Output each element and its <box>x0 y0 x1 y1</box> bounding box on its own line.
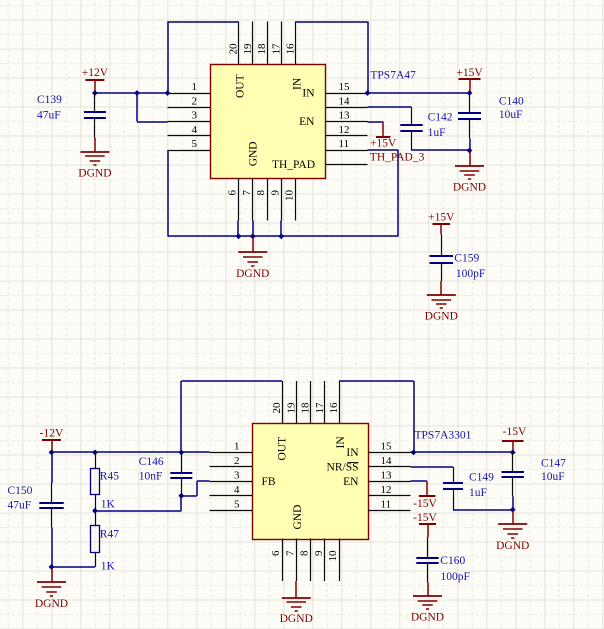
wire divider mid <box>95 496 181 511</box>
svg-text:NR/SS: NR/SS <box>327 461 359 473</box>
label 47uF C139 <box>37 110 61 122</box>
ground DGND C139 <box>78 152 111 179</box>
svg-text:2: 2 <box>192 95 198 107</box>
pin name IN (pin15) U1 <box>302 88 315 100</box>
capacitor C140 <box>458 93 481 151</box>
svg-text:+12V: +12V <box>82 67 109 79</box>
label C139 <box>37 94 62 106</box>
wire bottom DGND bus <box>168 235 399 237</box>
junction pin 9 bus <box>278 233 284 239</box>
pin name FB U2 <box>262 476 276 488</box>
svg-text:C160: C160 <box>440 555 465 567</box>
pin name EN U1 <box>299 116 315 128</box>
svg-text:1: 1 <box>234 440 240 452</box>
pin 7 U2 bottom <box>284 539 296 582</box>
wire pin15 to +15V/C140 <box>368 92 470 94</box>
wire pin 9 to bus <box>280 221 282 237</box>
capacitor C149 <box>443 467 463 510</box>
wire pin 6 to bus <box>237 221 239 237</box>
pin 14 U1 right <box>325 95 368 107</box>
junction pin1/rail <box>165 90 171 96</box>
pin 9 U2 bottom <box>313 539 325 582</box>
pin 20 U1 top <box>228 22 240 65</box>
ground DGND C160 <box>411 596 444 624</box>
wire pin 7 to bus <box>252 221 254 237</box>
label 1K R45 <box>101 499 116 511</box>
svg-text:FB: FB <box>262 476 276 488</box>
svg-text:13: 13 <box>381 469 393 481</box>
svg-text:7: 7 <box>284 550 296 556</box>
pin name EN U2 <box>343 476 359 488</box>
svg-text:11: 11 <box>339 138 350 150</box>
svg-text:7: 7 <box>241 190 253 196</box>
svg-text:+15V: +15V <box>428 212 455 224</box>
svg-text:1: 1 <box>192 81 198 93</box>
svg-text:100pF: 100pF <box>441 571 470 583</box>
pin 17 U2 top <box>314 381 326 423</box>
junction +15V C140 <box>467 90 473 96</box>
pin 10 U2 bottom <box>327 539 340 582</box>
pin name IN (pin16) U2 <box>335 436 347 449</box>
wire C149 bottom to C147 bottom <box>453 509 513 511</box>
capacitor C150 <box>39 452 63 567</box>
svg-text:6: 6 <box>270 550 282 556</box>
junction C146 top <box>178 450 184 456</box>
ground DGND C140 <box>453 151 486 194</box>
pin 16 U2 top <box>328 381 340 423</box>
designator TPS7A3301 <box>415 429 472 441</box>
svg-text:C146: C146 <box>139 456 164 468</box>
pin name TH_PAD U1 <box>272 159 315 171</box>
wire top rail right (pin16 to right rail) <box>296 21 368 23</box>
label 10nF C146 <box>139 471 163 483</box>
pin 4 U1 left <box>168 124 211 136</box>
pin 1 U2 left <box>210 440 253 452</box>
pin 13 U2 right <box>368 469 411 481</box>
svg-text:C147: C147 <box>541 458 566 470</box>
svg-text:TPS7A3301: TPS7A3301 <box>415 429 472 441</box>
svg-text:1uF: 1uF <box>469 487 487 499</box>
wire U2 top rail left <box>181 380 282 382</box>
wire U2 right rail vertical <box>413 381 415 452</box>
IC U2 TPS7A3301 body <box>253 424 369 540</box>
svg-text:11: 11 <box>381 498 392 510</box>
svg-text:OUT: OUT <box>235 74 247 98</box>
svg-text:10nF: 10nF <box>139 471 163 483</box>
svg-text:8: 8 <box>255 190 267 196</box>
label C142 <box>428 111 453 123</box>
pin 14 U2 right <box>368 455 411 467</box>
pin 12 U1 right <box>325 124 368 136</box>
svg-text:IN: IN <box>346 447 359 459</box>
pin 8 U1 bottom <box>255 178 268 221</box>
svg-text:DGND: DGND <box>236 268 269 280</box>
svg-text:14: 14 <box>339 95 351 107</box>
junction C147 bottom <box>510 507 516 513</box>
svg-text:17: 17 <box>270 43 282 55</box>
wire top rail left (pin20 to left rail) <box>168 21 239 23</box>
label C150 <box>8 485 33 497</box>
svg-text:4: 4 <box>234 484 240 496</box>
label 1uF C142 <box>428 127 446 139</box>
pin name NR/SS U2 <box>327 461 359 473</box>
svg-text:DGND: DGND <box>280 613 313 625</box>
pin 11 U2 right <box>368 498 411 510</box>
svg-text:DGND: DGND <box>425 311 458 323</box>
capacitor C159 <box>430 234 454 295</box>
ground DGND bus <box>236 236 269 280</box>
label C160 <box>440 555 465 567</box>
pin 5 U1 left <box>168 138 211 151</box>
svg-text:16: 16 <box>328 402 340 414</box>
wire R47 bottom to C150 <box>52 566 96 568</box>
IC U1 TPS7A47 body <box>211 65 326 179</box>
svg-text:-15V: -15V <box>503 426 527 438</box>
pin 13 U1 right <box>325 110 368 122</box>
capacitor C146 <box>170 452 192 495</box>
svg-text:C149: C149 <box>469 472 494 484</box>
wire pin14 to C142 <box>368 106 412 108</box>
svg-text:C142: C142 <box>428 111 453 123</box>
pin 3 U1 left <box>168 110 211 122</box>
svg-text:20: 20 <box>271 402 283 414</box>
label 100pF C159 <box>456 268 485 280</box>
svg-text:C139: C139 <box>37 94 62 106</box>
pin 2 U2 left <box>210 455 253 467</box>
svg-text:DGND: DGND <box>496 540 529 552</box>
label R47 <box>100 528 119 540</box>
pin name GND U2 <box>292 505 304 530</box>
svg-text:15: 15 <box>381 440 393 452</box>
ground DGND C150 <box>35 567 68 610</box>
svg-text:2: 2 <box>234 455 240 467</box>
power port -15V (output) <box>502 426 527 452</box>
pin 4 U2 left <box>210 484 253 496</box>
svg-text:20: 20 <box>228 43 240 55</box>
svg-text:IN: IN <box>302 88 315 100</box>
svg-text:4: 4 <box>192 124 198 136</box>
wire C142 bottom to C140 bottom <box>412 149 470 151</box>
svg-text:+15V: +15V <box>370 138 397 150</box>
label 1uF C149 <box>469 487 487 499</box>
pin 1 U1 left <box>168 81 211 94</box>
svg-text:10: 10 <box>327 550 339 562</box>
pin name IN (pin16) U1 <box>292 77 304 90</box>
svg-text:C150: C150 <box>8 485 33 497</box>
label 47uF C150 <box>8 500 32 512</box>
label C146 <box>139 456 164 468</box>
svg-text:1uF: 1uF <box>428 127 446 139</box>
pin name OUT U1 <box>235 74 247 98</box>
svg-text:3: 3 <box>192 110 198 122</box>
pin 9 U1 bottom <box>269 178 281 221</box>
svg-text:1K: 1K <box>101 560 116 572</box>
pin 8 U2 bottom <box>299 539 311 582</box>
svg-text:TH_PAD: TH_PAD <box>272 159 315 171</box>
label R45 <box>100 471 119 483</box>
resistor R45 <box>91 452 100 510</box>
svg-text:-15V: -15V <box>413 512 437 524</box>
pin 2 U1 left <box>168 95 211 107</box>
svg-text:R47: R47 <box>100 528 119 540</box>
junction pin15 rail <box>365 90 371 96</box>
net label TH_PAD_3 <box>370 152 425 164</box>
label 10uF C147 <box>541 471 565 483</box>
junction jog pin3 <box>134 90 140 96</box>
wire C146 column vertical <box>180 381 182 452</box>
pin 3 U2 left <box>210 469 253 481</box>
svg-text:47uF: 47uF <box>37 110 61 122</box>
junction pin 6 bus <box>236 233 242 239</box>
svg-text:13: 13 <box>339 110 351 122</box>
wire pin5 down <box>167 150 169 236</box>
svg-text:19: 19 <box>285 402 297 414</box>
pin 16 U1 top <box>285 22 297 65</box>
pin name IN (pin15) U2 <box>346 447 359 459</box>
svg-text:C159: C159 <box>454 253 479 265</box>
wire U2 top rail right <box>339 380 414 382</box>
power port +15V (C159) <box>428 212 455 235</box>
label C159 <box>454 253 479 265</box>
power port -15V (C160) <box>413 512 437 537</box>
power port +12V <box>82 67 109 93</box>
label C149 <box>469 472 494 484</box>
junction C146 bottom <box>178 493 184 499</box>
junction C150 bottom <box>49 564 55 570</box>
pin 17 U1 top <box>270 22 282 65</box>
pin 6 U2 bottom <box>270 539 283 582</box>
svg-text:DGND: DGND <box>411 612 444 624</box>
pin 18 U2 top <box>300 381 312 423</box>
svg-text:18: 18 <box>256 43 268 55</box>
svg-text:17: 17 <box>314 402 326 414</box>
pin 20 U2 top <box>271 381 283 423</box>
svg-text:EN: EN <box>343 476 359 488</box>
junction R45 top <box>92 450 98 456</box>
power port +15V (output) <box>456 67 483 93</box>
ground DGND U2 pin7 <box>280 581 313 625</box>
svg-text:TH_PAD_3: TH_PAD_3 <box>370 152 425 164</box>
wire jog down to pin 3 <box>137 93 168 122</box>
wire -12V to pin 1 <box>52 451 210 453</box>
wire pin14 U2 to C149 <box>411 466 454 468</box>
pin 15 U2 right <box>368 440 411 452</box>
pin 12 U2 right <box>368 484 411 496</box>
power port +15V (EN) <box>370 122 397 150</box>
svg-text:-12V: -12V <box>40 427 64 439</box>
pin 15 U1 right <box>325 81 368 94</box>
svg-text:47uF: 47uF <box>8 500 32 512</box>
svg-text:5: 5 <box>234 498 240 510</box>
label C140 <box>499 95 524 107</box>
ground DGND C159 <box>425 295 458 323</box>
svg-text:DGND: DGND <box>78 167 111 179</box>
svg-text:15: 15 <box>339 81 351 93</box>
svg-text:6: 6 <box>227 190 239 196</box>
wire left rail vertical <box>167 22 169 94</box>
junction -15V C147 <box>510 450 516 456</box>
wire +12V to pin 1 <box>95 92 168 94</box>
svg-text:TPS7A47: TPS7A47 <box>370 70 416 82</box>
svg-text:100pF: 100pF <box>456 268 485 280</box>
svg-text:-15V: -15V <box>413 498 437 510</box>
capacitor C160 <box>416 537 438 596</box>
pin 19 U1 top <box>242 22 254 65</box>
pin 11 U1 right <box>325 138 368 151</box>
svg-text:DGND: DGND <box>35 598 68 610</box>
junction +12V/C139 <box>92 90 98 96</box>
label 100pF C160 <box>441 571 470 583</box>
pin 6 U1 bottom <box>227 178 239 221</box>
svg-text:19: 19 <box>242 43 254 55</box>
junction U2 pin15 rail <box>411 450 417 456</box>
svg-text:5: 5 <box>192 138 198 150</box>
svg-text:10uF: 10uF <box>499 109 523 121</box>
designator TPS7A47 <box>370 70 416 82</box>
wire EN U2 to -15V <box>411 480 428 482</box>
svg-text:1K: 1K <box>101 499 116 511</box>
label 1K R47 <box>101 560 116 572</box>
svg-text:GND: GND <box>292 505 304 530</box>
pin name OUT U2 <box>277 437 289 461</box>
junction C140 bottom <box>467 148 473 154</box>
svg-text:GND: GND <box>248 141 260 166</box>
svg-text:9: 9 <box>269 190 281 196</box>
wire EN to +15V <box>368 121 384 123</box>
capacitor C139 <box>84 93 106 152</box>
ground DGND C147 <box>496 510 529 552</box>
resistor R47 <box>91 511 100 567</box>
svg-text:14: 14 <box>381 455 393 467</box>
svg-text:12: 12 <box>339 124 350 136</box>
label C147 <box>541 458 566 470</box>
svg-text:12: 12 <box>381 484 392 496</box>
wire TH_PAD_3 loop <box>368 150 399 236</box>
svg-text:10uF: 10uF <box>541 471 565 483</box>
pin 18 U1 top <box>256 22 268 65</box>
wire FB branch <box>181 481 209 496</box>
svg-text:10: 10 <box>284 190 296 202</box>
capacitor C147 <box>502 452 524 509</box>
pin name GND U1 <box>248 141 260 166</box>
pin 10 U1 bottom <box>284 178 296 221</box>
wire right rail vertical <box>367 22 369 94</box>
pin TH_PAD U1 right <box>325 164 368 166</box>
svg-text:R45: R45 <box>100 471 119 483</box>
wire pin15 U2 to -15V/C147 <box>411 451 513 453</box>
junction R45/R47 <box>92 508 98 514</box>
svg-text:9: 9 <box>313 550 325 556</box>
svg-text:C140: C140 <box>499 95 524 107</box>
svg-text:OUT: OUT <box>277 437 289 461</box>
pin 19 U2 top <box>285 381 297 423</box>
svg-text:8: 8 <box>299 550 311 556</box>
junction pin 7 bus <box>250 233 256 239</box>
label 10uF C140 <box>499 109 523 121</box>
pin 5 U2 left <box>210 498 253 510</box>
junction -12V/C150 <box>49 450 55 456</box>
svg-text:16: 16 <box>285 43 297 55</box>
svg-text:DGND: DGND <box>453 182 486 194</box>
capacitor C142 <box>400 107 422 150</box>
power port -12V <box>40 427 64 452</box>
power port -15V (EN) <box>413 481 437 509</box>
svg-text:+15V: +15V <box>456 67 483 79</box>
pin 7 U1 bottom <box>241 178 253 221</box>
svg-text:EN: EN <box>299 116 315 128</box>
svg-text:3: 3 <box>234 469 240 481</box>
svg-text:18: 18 <box>300 402 312 414</box>
